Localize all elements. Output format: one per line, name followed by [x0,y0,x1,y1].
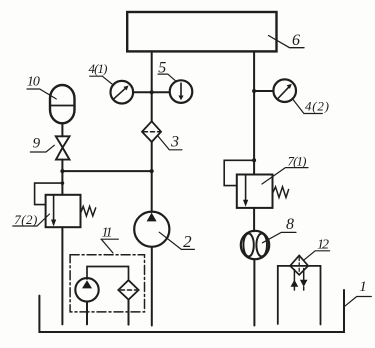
breather filter 12 [290,255,308,274]
label 7(1) [262,154,308,184]
svg-text:3: 3 [170,134,179,151]
label 4(2) [293,99,329,114]
svg-text:7(1): 7(1) [288,154,307,169]
flow meter 8 [241,231,269,259]
wire left main: filter to pump [151,142,153,212]
svg-text:8: 8 [286,216,294,233]
node at gauge junction right [252,89,256,93]
label 3 [158,134,183,151]
wire gauge 4(1) to main [133,91,152,93]
relief valve 7(2) [46,195,96,227]
tank 1 [39,290,344,332]
svg-text:4(1): 4(1) [89,61,108,76]
filter 3 [142,121,161,142]
accumulator 10 [50,85,75,123]
label 1 [344,279,371,307]
relief valve 7(1) [237,175,289,208]
wire valve 7(1) to flow meter [253,208,255,231]
svg-text:12: 12 [317,238,329,253]
label 8 [262,216,296,243]
svg-text:10: 10 [27,75,40,90]
pump 2 [134,212,169,247]
label 4(1) [89,61,114,85]
svg-text:2: 2 [183,232,192,251]
breather check valves 12 [291,269,308,291]
label 7(2) [13,212,50,227]
node at gauge junction left [150,90,154,94]
svg-text:5: 5 [158,60,166,77]
svg-text:9: 9 [33,136,41,152]
spring 7(1) [273,187,289,198]
wire flow meter to tank [253,259,255,325]
node left link [60,169,64,173]
label 9 [30,136,54,153]
label 2 [159,232,194,251]
pilot line 7(1) [224,160,254,185]
wire gauge 5 to main [152,91,170,93]
wire node to valve 7(2) [61,171,63,195]
spring 7(2) [81,206,96,216]
wire pump11 to tank [86,302,88,325]
node pilot tee 7(1) [252,158,256,162]
gauge 4(2) [273,79,296,102]
wire right main: block to valve 7(1) [253,51,255,174]
wire cross link [62,170,151,172]
subunit box 11 [70,255,144,312]
node right link [150,169,154,173]
filter in box 11 [118,280,138,299]
svg-text:1: 1 [359,279,367,295]
valve 9 [56,136,70,159]
label 6 [269,32,305,49]
node pilot tee 7(2) [61,181,65,185]
svg-text:6: 6 [292,32,300,49]
wire filter11 to tank [128,300,130,325]
pilot line 7(2) [35,183,63,205]
pump in box 11 [75,278,98,301]
label 12 [304,238,329,260]
wire left main: block to filter [151,51,153,121]
block 6 [127,12,276,51]
gauge 4(1) [111,81,134,104]
svg-text:4(2): 4(2) [305,99,329,114]
wire pump11 to filter11 [87,267,129,281]
wire gauge 4(2) to main [254,90,273,92]
label 11 [101,226,118,254]
breather box 12 [278,266,321,325]
label 10 [27,75,56,100]
wire pump 2 to tank [151,247,153,326]
gauge 5 [170,80,193,103]
svg-text:7(2): 7(2) [14,212,37,227]
wire valve 7(2) to tank [61,227,63,324]
svg-text:11: 11 [102,226,113,241]
label 5 [158,60,176,82]
wire accumulator to valve 9 [61,123,63,136]
wire valve 9 to node [61,160,63,172]
